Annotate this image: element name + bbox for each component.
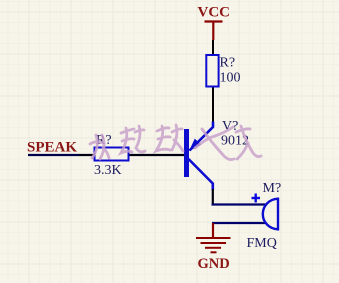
plus sign polarity: [252, 194, 261, 203]
wire GND lead: [212, 223, 214, 238]
wire SPEAK net right segment: [79, 154, 185, 156]
wire VCC to R1: [212, 40, 214, 56]
watermark: [90, 125, 261, 160]
wire to buzzer bottom terminal: [212, 222, 266, 224]
svg-text:GND: GND: [198, 256, 230, 272]
resistor R2 body: [95, 148, 129, 161]
wire SPEAK net left segment: [28, 154, 79, 156]
svg-text:VCC: VCC: [198, 5, 231, 21]
wire R1 to V1 emitter: [212, 86, 214, 122]
transistor V1 emitter arrow: [189, 139, 201, 151]
power VCC bar symbol: [205, 22, 223, 41]
wire collector down: [212, 189, 214, 205]
wire to buzzer top terminal: [212, 203, 266, 205]
transistor V1 collector diagonal: [189, 159, 213, 190]
svg-text:100: 100: [220, 71, 241, 86]
svg-text:3.3K: 3.3K: [94, 163, 122, 178]
resistor R1 body: [206, 55, 218, 87]
svg-text:R?: R?: [220, 56, 236, 71]
buzzer M1 body: [263, 198, 278, 231]
svg-text:FMQ: FMQ: [247, 236, 277, 251]
ground symbol: [196, 238, 231, 252]
transistor V1 base bar: [184, 129, 189, 177]
transistor V1 emitter diagonal: [190, 122, 214, 151]
svg-text:M?: M?: [263, 181, 282, 196]
svg-text:SPEAK: SPEAK: [27, 140, 77, 156]
